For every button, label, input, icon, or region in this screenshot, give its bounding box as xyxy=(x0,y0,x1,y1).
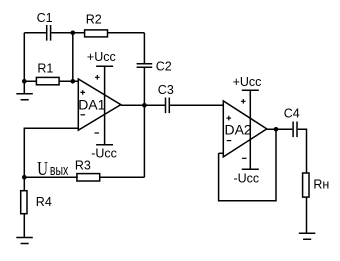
ground G3 under Rn xyxy=(299,233,316,239)
wire DA1 output xyxy=(121,104,165,106)
DA1 minus supply marker xyxy=(95,132,100,134)
wire C2 bottom to R3 corner xyxy=(143,68,145,177)
wire R2 right to corner xyxy=(108,32,145,34)
wire C3 to DA2 input xyxy=(170,104,223,106)
wire DA1 inverting feedback xyxy=(24,128,78,177)
op-amp DA1 xyxy=(78,79,121,130)
svg-text:-Ucc: -Ucc xyxy=(91,147,117,161)
DA1 power line xyxy=(104,66,106,145)
resistor R4 xyxy=(21,191,27,214)
op-amp DA2 xyxy=(223,101,266,157)
svg-text:C4: C4 xyxy=(284,107,300,121)
svg-text:R2: R2 xyxy=(86,13,102,27)
svg-text:+Ucc: +Ucc xyxy=(233,75,262,89)
wire DA2 inverting input xyxy=(219,152,224,154)
svg-text:R1: R1 xyxy=(37,61,53,75)
node B junction dot (R1 left) xyxy=(22,79,27,84)
svg-text:+Ucc: +Ucc xyxy=(87,50,116,64)
DA2 plus supply marker xyxy=(241,99,246,104)
label Uvyh xyxy=(37,157,69,180)
node E junction dot (Uvyh) xyxy=(22,175,27,180)
capacitor C4 xyxy=(293,122,297,138)
wire top rail left (C1 branch) xyxy=(24,32,84,34)
ground G2 under R4 xyxy=(16,238,33,244)
wire DA2 feedback loop xyxy=(219,129,276,201)
wire Uvyh node down to R4 xyxy=(23,177,25,190)
DA2 minus supply marker xyxy=(242,157,247,159)
ground G1 under node B xyxy=(16,81,33,100)
svg-text:DA1: DA1 xyxy=(78,97,105,113)
wire C4 right to corner down xyxy=(298,129,307,173)
resistor R2 xyxy=(85,30,108,37)
svg-text:U: U xyxy=(37,157,48,180)
wire R1 row xyxy=(24,80,78,82)
DA2 -Ucc supply bar xyxy=(242,168,259,170)
node F junction dot (DA2 output) xyxy=(274,127,279,132)
DA1 plus supply marker xyxy=(95,75,100,80)
capacitor C1 xyxy=(47,25,51,41)
wire R3 right to DA1 output node xyxy=(100,176,145,178)
DA1 plus input marker xyxy=(80,90,85,95)
DA2 power line xyxy=(249,90,251,169)
wire Rn to ground xyxy=(306,197,308,233)
DA1 minus input marker xyxy=(81,114,86,116)
svg-text:C2: C2 xyxy=(156,60,172,74)
resistor R3 xyxy=(77,174,100,181)
wire R4 to ground xyxy=(23,214,25,238)
wire Uvyh node to R3 xyxy=(24,176,78,178)
svg-text:вых: вых xyxy=(50,161,69,178)
DA2 plus input marker xyxy=(227,116,232,121)
wire C2 branch vertical top xyxy=(143,33,145,63)
DA1 +Ucc supply bar xyxy=(96,65,113,67)
wire node A down to R1 right xyxy=(72,33,74,82)
resistor R1 xyxy=(36,77,59,84)
svg-text:-Ucc: -Ucc xyxy=(234,172,260,186)
resistor Rn xyxy=(303,173,309,197)
svg-text:R4: R4 xyxy=(36,195,52,209)
svg-text:C3: C3 xyxy=(158,83,174,97)
node A junction dot xyxy=(71,31,76,36)
wire DA2 output xyxy=(267,128,293,130)
DA2 minus input marker xyxy=(227,140,232,142)
DA2 +Ucc supply bar xyxy=(242,89,259,91)
svg-text:DA2: DA2 xyxy=(225,121,252,137)
wire left vertical C1 to R1 xyxy=(23,33,25,82)
svg-text:Rн: Rн xyxy=(313,178,329,192)
node C junction dot (R1 right) xyxy=(71,79,76,84)
svg-text:R3: R3 xyxy=(75,159,91,173)
capacitor C2 xyxy=(137,64,153,68)
capacitor C3 xyxy=(166,98,170,114)
node D junction dot (DA1 output) xyxy=(142,103,147,108)
DA1 -Ucc supply bar xyxy=(96,144,113,146)
svg-text:C1: C1 xyxy=(37,11,53,25)
